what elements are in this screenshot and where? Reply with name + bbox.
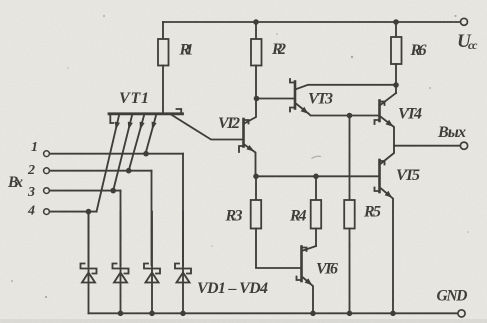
transistor VT6 base bar serifs	[297, 248, 307, 281]
diode VD4	[175, 212, 191, 314]
wire node B2 to VT3 base	[256, 98, 294, 100]
transistor VT5 emitter	[381, 189, 393, 314]
junction R6 top rail	[393, 19, 399, 25]
junction GND VD2	[118, 311, 124, 317]
resistor R3	[251, 200, 262, 229]
wire R1 top lead	[162, 22, 164, 39]
transistor VT4 emitter	[381, 117, 394, 146]
junction node N2 left (VT2 emitter / R3)	[253, 174, 259, 180]
wire VT4 collector drop from R6 node	[395, 85, 397, 93]
wire R1 bottom lead to VT1 base	[162, 66, 164, 115]
terminal input 3	[44, 188, 50, 194]
junction GND R5	[347, 311, 353, 317]
junction input 4 / VD1	[86, 209, 92, 215]
wire input 2 down to VD3	[151, 171, 153, 265]
wire node N2 horizontal (VT2 emitter to VT5 base)	[256, 175, 379, 177]
junction input 1 / emitter 4	[143, 151, 149, 157]
wire input 4 down to VD1	[88, 212, 90, 265]
transistor VT2 base bar	[242, 119, 245, 147]
terminal Ucc	[461, 18, 468, 25]
transistor VT1 emitter arrows	[115, 122, 157, 130]
terminal GND	[458, 310, 465, 317]
junction input 2 / emitter 3	[126, 168, 132, 174]
transistor VT6 base bar	[300, 247, 303, 282]
resistor R5	[344, 200, 355, 229]
wire R3 bottom lead to VT6 base	[256, 229, 300, 269]
transistor VT3 base bar	[294, 82, 297, 109]
transistor VT1 base bar end serifs	[110, 109, 181, 123]
transistor VT1 emitter 3	[129, 116, 144, 171]
transistor VT4 base bar serifs	[375, 102, 385, 125]
transistor VT1 emitter 1	[97, 116, 120, 212]
transistor VT5 base bar serifs	[375, 161, 385, 191]
diode VD2	[113, 212, 129, 314]
resistor R4	[311, 200, 322, 229]
wire R2 bottom lead to node B2	[255, 66, 257, 99]
wire R6 top lead	[395, 22, 397, 37]
diode VD1	[81, 212, 97, 314]
wire R4 bottom lead to VT6 collector	[315, 229, 317, 247]
transistor VT1 collector	[171, 115, 242, 140]
transistor VT3 emitter arrow	[301, 107, 309, 114]
transistor VT1 multi-emitter base bar	[109, 112, 183, 115]
wire input line 2	[49, 170, 151, 172]
wire R4 top lead	[315, 176, 317, 200]
terminal Bvyh output	[460, 142, 467, 149]
transistor VT3 base bar serifs	[290, 79, 295, 112]
diode VD3	[144, 212, 160, 314]
wire input 1 down to VD4	[182, 154, 184, 265]
resistor R2	[251, 39, 262, 66]
resistor R6	[391, 37, 402, 64]
transistor VT4 emitter arrow	[386, 120, 394, 127]
junction R2 top rail	[253, 19, 259, 25]
transistor VT4 base bar	[378, 101, 381, 122]
transistor VT3 collector	[297, 85, 397, 89]
wire R6 bottom lead	[395, 64, 397, 85]
wire input line 3	[49, 190, 120, 192]
wire R3 top lead	[255, 176, 257, 200]
junction R6 bottom / VT3 collector	[393, 82, 399, 88]
transistor VT3 emitter	[297, 104, 379, 116]
resistor R1	[158, 39, 169, 66]
junction node N2 R4 top	[313, 174, 319, 180]
terminal input 1	[44, 151, 50, 157]
junction input 3 / emitter 2	[110, 188, 116, 194]
terminal input 4	[44, 209, 50, 215]
transistor VT2 collector	[245, 99, 256, 124]
wire R2 top lead	[255, 22, 257, 39]
junction GND VD4	[180, 311, 186, 317]
wire input 3 down to VD2	[120, 191, 122, 265]
transistor VT4 collector	[381, 93, 396, 105]
wire output line to Bvyh terminal	[394, 145, 461, 147]
wire R5 bottom lead to GND rail	[349, 229, 351, 314]
transistor VT6 emitter arrow	[305, 278, 313, 285]
junction GND VD3	[149, 311, 155, 317]
junction VT3 emitter / R5 top	[347, 113, 353, 119]
transistor VT1 emitter 4	[146, 116, 157, 154]
transistor VT6 emitter	[303, 278, 313, 314]
junction GND VT6 emitter	[310, 311, 316, 317]
junction node B2	[254, 96, 260, 102]
transistor VT6 collector	[303, 246, 316, 251]
wire input line 4	[49, 211, 96, 213]
transistor VT5 base bar	[378, 160, 381, 192]
wire Ucc top rail	[163, 21, 461, 23]
transistor VT1 emitter 2	[113, 116, 132, 191]
wire input line 1	[49, 153, 183, 155]
junction GND VT5 emitter	[390, 311, 396, 317]
transistor VT5 emitter arrow	[385, 191, 393, 198]
transistor VT2 emitter arrow	[247, 145, 255, 152]
terminal input 2	[44, 168, 50, 174]
wire R5 top lead from node N3	[349, 116, 351, 201]
transistor VT2 emitter	[245, 145, 256, 176]
transistor VT2 base bar serifs	[239, 120, 249, 152]
transistor VT5 collector	[381, 146, 394, 164]
wire GND bottom rail	[89, 312, 459, 314]
